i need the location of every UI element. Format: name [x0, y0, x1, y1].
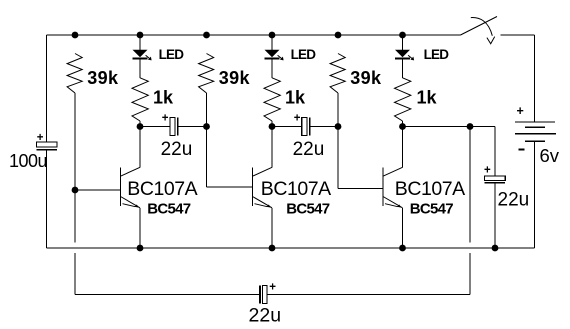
base wire Q1: [75, 189, 121, 191]
node: junction collector row / loop right column: [467, 123, 474, 130]
transistor Q1 BC107A: [75, 127, 140, 249]
wire: C5 to ground rail: [494, 184, 496, 249]
svg-text:100u: 100u: [9, 151, 47, 171]
node: collector junction stage 1: [137, 123, 144, 130]
node: top rail junction, 39k column stage 3: [335, 32, 342, 39]
wire: 1k bottom to collector node stage 2: [271, 121, 273, 127]
resistor R4 1k: [132, 78, 148, 121]
node: top rail junction, 39k column stage 1: [72, 32, 79, 39]
LED D3: [395, 35, 414, 60]
emitter Q3 with arrow: [383, 197, 403, 208]
wire: stage3 collector node to right columns: [403, 126, 496, 128]
wire: top +V rail: [47, 34, 461, 36]
svg-text:22u: 22u: [293, 139, 325, 160]
svg-text:6v: 6v: [540, 145, 560, 166]
wire: collector stage 2 to coupling cap: [272, 126, 302, 128]
wire: 39k bottom to base node stage 1: [74, 93, 76, 190]
LED light arrow D2: [278, 55, 283, 59]
capacitor C3 22u (coupling, stage 2 to 3): [302, 117, 310, 135]
svg-text:BC107A: BC107A: [127, 178, 197, 200]
svg-text:BC547: BC547: [286, 201, 330, 218]
svg-text:22u: 22u: [498, 189, 530, 210]
svg-text:LED: LED: [424, 47, 450, 62]
node: collector junction stage 3: [399, 123, 406, 130]
svg-text:+: +: [37, 132, 44, 144]
wire: LED cathode to 1k stage 2: [271, 58, 273, 77]
node: top rail junction, LED column stage 2: [269, 32, 276, 39]
emitter Q2 with arrow: [253, 197, 273, 208]
LED light arrow D1: [146, 55, 151, 59]
base bar Q1: [120, 168, 122, 207]
svg-text:1k: 1k: [153, 87, 174, 107]
LED D1: [132, 35, 151, 60]
collector Q3: [383, 167, 403, 176]
node: emitter to ground rail junction stage 2: [269, 245, 276, 252]
svg-text:39k: 39k: [87, 68, 119, 88]
wire: 39k bottom to base node stage 3: [337, 93, 339, 189]
LED D2: [264, 35, 283, 60]
svg-text:22u: 22u: [249, 305, 282, 327]
svg-text:+: +: [294, 113, 301, 125]
switch SW1 motion arc with arrow: [471, 18, 493, 36]
node: emitter to ground rail junction stage 1: [137, 245, 144, 252]
node: top rail junction, LED column stage 3: [399, 32, 406, 39]
wire: coupling cap to base column stage 2: [179, 126, 207, 128]
node: C5 ground junction: [492, 245, 499, 252]
resistor R1 39k: [67, 54, 82, 94]
svg-text:1k: 1k: [417, 87, 438, 107]
wire: base column from cap node down, stage 2: [206, 127, 208, 188]
transistor Q3 BC107A: [338, 127, 403, 249]
battery B1 6v: [515, 122, 556, 141]
switch SW1 blade: [461, 17, 498, 36]
svg-text:39k: 39k: [350, 68, 382, 88]
node: base junction stage 1 (feedback): [72, 187, 79, 194]
wire: battery column top: [534, 35, 536, 122]
capacitor C4 22u (feedback, bottom): [260, 285, 267, 303]
svg-text:+: +: [269, 281, 276, 293]
battery - terminal label: [519, 149, 525, 151]
capacitor C2 22u (coupling, stage 1 to 2): [170, 117, 178, 135]
wire: left rail (100u down to bottom rail): [46, 151, 48, 248]
svg-text:BC547: BC547: [147, 201, 191, 218]
resistor R2 39k: [199, 54, 214, 94]
wire: LED cathode to 1k stage 1: [139, 58, 141, 77]
wire: loop right column above ground rail up to collector row: [469, 127, 471, 243]
wire: right column down to C5: [494, 127, 496, 176]
wire: loop right column up to ground rail crossing: [469, 253, 471, 294]
resistor R5 1k: [264, 78, 280, 121]
wire: switch right contact to battery column: [501, 34, 535, 36]
resistor R6 1k: [395, 78, 411, 121]
wire: base column from cap node down, stage 3: [337, 127, 339, 189]
svg-text:+: +: [484, 164, 491, 176]
collector Q1: [121, 167, 141, 176]
svg-text:+: +: [517, 104, 524, 118]
svg-text:BC107A: BC107A: [261, 178, 331, 200]
wire: feedback loop bottom, left half: [75, 294, 259, 296]
svg-text:BC547: BC547: [410, 201, 454, 218]
svg-text:39k: 39k: [219, 68, 251, 88]
wire: feedback loop bottom, right half: [268, 294, 471, 296]
node: top rail junction, 39k column stage 2: [203, 32, 210, 39]
LED light arrow D3: [408, 55, 413, 59]
wire: battery column bottom: [534, 141, 536, 248]
svg-text:+: +: [162, 113, 169, 125]
wire: 39k bottom to base node stage 2: [206, 93, 208, 187]
collector Q2: [253, 167, 273, 176]
base wire Q2: [207, 186, 253, 188]
wire: 1k bottom to collector node stage 1: [139, 121, 141, 127]
wire: 1k bottom to collector node stage 3: [402, 121, 404, 127]
svg-text:BC107A: BC107A: [395, 178, 465, 200]
node: top rail junction, LED column stage 1: [137, 32, 144, 39]
wire: LED cathode to 1k stage 3: [402, 58, 404, 77]
transistor Q2 BC107A: [207, 127, 273, 249]
capacitor C1 100u (electrolytic, left rail): [36, 142, 57, 147]
node: coupling cap to base column junction stage 2: [203, 123, 210, 130]
node: coupling cap to base column junction stage 3: [335, 123, 342, 130]
wire: left rail (top rail corner down to 100u): [46, 35, 48, 142]
wire: coupling cap to base column stage 3: [311, 126, 338, 128]
wire: stage1 base column down to loop (above ground rail crossing): [74, 190, 76, 243]
node: collector junction stage 2: [269, 123, 276, 130]
svg-text:LED: LED: [291, 47, 317, 62]
base bar Q2: [252, 168, 254, 207]
base wire Q3: [338, 188, 383, 190]
svg-text:1k: 1k: [285, 87, 306, 107]
svg-text:22u: 22u: [161, 139, 193, 160]
capacitor C5 22u (right, vertical): [485, 176, 506, 183]
svg-text:LED: LED: [159, 47, 185, 62]
base bar Q3: [382, 168, 384, 207]
emitter Q1 with arrow: [121, 197, 141, 208]
wire: stage1 base column below ground rail crossing: [74, 253, 76, 294]
node: emitter to ground rail junction stage 3: [399, 245, 406, 252]
wire: collector stage 1 to coupling cap: [140, 126, 170, 128]
resistor R3 39k: [330, 54, 345, 94]
wire: bottom ground rail: [47, 247, 535, 249]
